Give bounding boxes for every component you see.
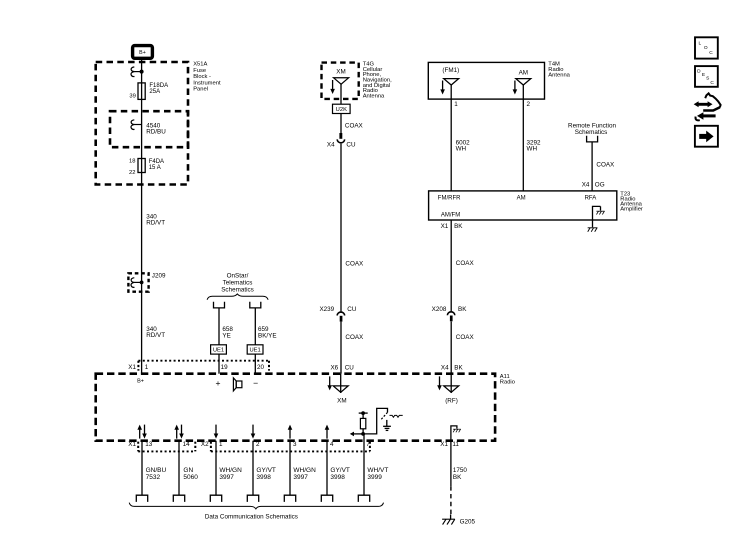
svg-text:(RF): (RF) [445,397,458,404]
svg-text:X208: X208 [432,306,447,313]
splice U2K [333,104,351,113]
arrow down pin 14 [179,425,184,439]
svg-text:COAX: COAX [345,260,364,267]
label T4M Radio Antenna [548,61,570,78]
off-page connector pin 7 [358,495,369,502]
wire pin 4 [326,441,328,496]
svg-text:7: 7 [366,441,370,448]
svg-text:Block -: Block - [193,74,211,80]
switch blade dashed [381,412,388,419]
svg-text:COAX: COAX [345,123,364,130]
arrow down XM inside radio [327,376,332,390]
svg-text:BK/YE: BK/YE [258,333,277,340]
chassis ground below T23 [588,228,598,232]
svg-text:CU: CU [346,141,356,148]
svg-text:25A: 25A [149,89,160,95]
svg-text:7532: 7532 [146,474,161,481]
svg-text:RD/BU: RD/BU [146,129,166,136]
wire T23 to radio X4 RF [450,220,452,311]
svg-text:Instrument: Instrument [193,80,221,86]
harness connector dashed box 4540 [110,111,188,147]
wire label 340 RD/VT lower [146,326,165,339]
off-page connector to OnStar pin 20 [250,302,261,308]
svg-text:Panel: Panel [193,87,208,93]
svg-text:BK: BK [454,364,463,371]
svg-text:D: D [697,69,701,75]
label X51A Fuse Block - Instrument Panel [193,62,221,93]
splice UE1 right [247,345,263,354]
wire label WH/VT 3999 [367,467,388,481]
svg-text:19: 19 [221,364,229,371]
antenna symbol FM1 [444,79,459,85]
wire AM to T23 pin AM [522,85,524,191]
wire 659 BK/YE [254,308,256,345]
svg-text:Antenna: Antenna [363,93,385,99]
off-page connector pin 3 [284,495,295,502]
wire label GN/BU 7532 [146,467,167,481]
splice UE1 left [211,345,227,354]
ground G205 [442,514,475,525]
svg-text:L: L [698,41,701,47]
icon box DESC [695,66,718,87]
svg-text:X239: X239 [319,306,334,313]
arrow down in T4G [330,80,335,94]
label Remote Function Schematics [568,122,616,136]
pin label X6 CU [330,365,354,372]
antenna symbol RF radio [444,386,459,392]
icon box LOC [695,37,718,58]
pin label X4 OG [582,181,605,188]
connector hook at fuse block feed [131,67,144,77]
arrow up pin 13 [137,425,142,439]
svg-text:Data Communication Schematics: Data Communication Schematics [205,514,298,521]
label T4G Cellular Phone Navigation and Digital Radio Antenna [363,62,392,100]
brace Data Communication [129,503,383,509]
svg-text:Antenna: Antenna [548,72,570,78]
wire pin 3 [289,441,291,496]
in-line connector J209 [128,272,166,291]
antenna symbol XM radio [333,386,348,392]
icon box arrow right [695,126,718,147]
wire label WH/GN 3997 [219,467,242,481]
svg-text:AM: AM [517,195,526,201]
wire label 659 BK/YE [258,326,277,339]
svg-text:X4: X4 [441,364,449,371]
speaker icon [233,378,242,391]
svg-text:22: 22 [129,170,135,176]
off-page connector pin 14 [173,495,184,502]
wire label 1750 BK [453,467,468,481]
arrow down RF inside radio [437,376,442,390]
pin labels X1 11 [440,441,459,448]
svg-text:X51A: X51A [193,62,207,68]
antenna symbol XM T4G [334,78,349,84]
connector dotted line X1 bottom [138,442,195,452]
svg-text:3997: 3997 [293,474,308,481]
wire X4 to X239 coax [340,144,342,312]
label T23 Radio Antenna Amplifier [620,192,643,213]
connector X208 BK [432,306,468,321]
svg-text:WH: WH [527,146,538,153]
pin labels X2 1 [201,441,223,448]
connector X239 CU [319,306,356,322]
wire stub to XM antenna [340,374,342,393]
svg-text:1: 1 [145,364,149,371]
antenna symbol AM [516,79,531,85]
wire pin 14 [178,441,180,496]
wire UE1 to radio pin 19 [218,354,220,374]
svg-text:OnStar/: OnStar/ [227,273,249,280]
off-page connector pin 2 [247,495,258,502]
arrow down FM1 [440,81,445,95]
svg-text:14: 14 [183,441,191,448]
off-page connector to OnStar pin 19 [214,302,225,308]
arrow up pin 14 [174,425,179,439]
off-page connector pin 4 [321,495,332,502]
fuse F4DA 15 A [129,158,164,176]
svg-text:15 A: 15 A [149,165,161,171]
svg-text:BK: BK [454,223,463,230]
svg-text:Amplifier: Amplifier [620,207,643,213]
off-page connector remote function [587,136,598,142]
connector hook on wire 4540 [131,120,142,130]
radio antenna T4M box [428,62,544,99]
svg-text:X4: X4 [582,181,590,188]
svg-text:Schematics: Schematics [575,129,608,136]
earth ground at switch [383,420,391,431]
wire U2K to X4 [340,114,342,134]
svg-text:4: 4 [330,441,334,448]
connector X1 dotted line radio top [138,361,269,371]
wire pin 11 solid [450,441,452,487]
svg-text:C: C [710,80,714,86]
pin label X1 BK of T23 [441,223,464,230]
connector X4 CU male/female [327,133,356,148]
wire label GN 5060 [183,467,198,481]
arrow left at pin 7 [350,432,363,437]
wire label WH/GN 3997 second [293,467,316,481]
switch squiggle [390,415,403,417]
svg-text:U2K: U2K [336,107,347,113]
svg-text:XM: XM [336,69,345,76]
svg-text:RD/VT: RD/VT [146,220,165,227]
wire label 6002 WH [456,139,471,152]
icon flip arrows [694,93,721,120]
wire pin 13 [141,441,143,496]
arrow down AM [513,81,518,95]
svg-text:39: 39 [129,93,135,99]
svg-text:18: 18 [129,158,135,164]
wire label GY/VT 3998 [256,467,276,481]
svg-text:11: 11 [452,441,459,448]
svg-text:X1: X1 [441,223,449,230]
wire label 340 RD/VT upper [146,213,165,226]
wire remote to T23 RFA [591,142,593,191]
wire label GY/VT 3998 second [330,467,350,481]
internal ground path at pin 11 [451,426,461,441]
pin label X4 BK radio [441,364,464,371]
arrow down pin 2 [251,425,256,439]
pin labels bottom X1 13 [128,441,152,448]
fuse block X51A dashed outline [96,62,188,185]
svg-text:E: E [702,72,705,78]
svg-text:CU: CU [345,365,355,372]
svg-text:OG: OG [595,181,605,188]
svg-text:BK: BK [458,306,467,313]
svg-text:3997: 3997 [219,474,234,481]
off-page connector pin 13 [136,495,147,502]
wire B+ to fuse F18DA [141,60,143,374]
svg-text:(FM1): (FM1) [442,67,459,74]
svg-text:−: − [253,378,258,388]
wire label 658 YE [222,326,233,339]
svg-text:AM/FM: AM/FM [441,212,460,218]
svg-text:3998: 3998 [256,474,271,481]
arrow down pin 1 [214,425,219,439]
wire UE1 to radio pin 20 [254,354,256,374]
svg-text:Radio: Radio [500,380,515,386]
wire pin 2 [252,441,254,496]
svg-text:3999: 3999 [367,474,382,481]
wire X239 to radio X6 [340,322,342,374]
svg-text:O: O [704,45,708,51]
junction node pin 7 [361,432,365,436]
svg-text:XM: XM [337,397,346,404]
connector dotted line X2 bottom [211,442,370,452]
svg-text:3998: 3998 [330,474,345,481]
svg-text:B+: B+ [139,50,146,56]
svg-text:1: 1 [219,441,223,448]
svg-text:20: 20 [257,364,265,371]
svg-text:Schematics: Schematics [221,286,254,293]
svg-text:3: 3 [293,441,297,448]
wire pin 7 [363,434,365,495]
wire FM1 to T23 pin FM/RFR [450,85,452,191]
svg-text:X4: X4 [327,141,335,148]
svg-text:X1: X1 [128,441,136,448]
svg-text:1: 1 [454,101,458,108]
wire label 3292 WH [527,139,542,152]
svg-text:WH: WH [456,146,467,153]
wire XM antenna to U2K [340,84,342,104]
svg-text:C: C [709,50,713,56]
svg-text:UE1: UE1 [249,348,260,354]
label A11 Radio [500,374,515,386]
internal ground path T23 [593,206,605,227]
svg-text:BK: BK [453,474,462,481]
amplifier T23 box [429,191,617,220]
svg-text:COAX: COAX [596,161,615,168]
radio A11 dashed box [96,374,495,441]
svg-text:UE1: UE1 [213,348,224,354]
wire label 4540 RD/BU [146,122,166,135]
battery feed B+ terminal [133,46,153,59]
svg-text:CU: CU [347,306,357,313]
svg-text:Fuse: Fuse [193,68,206,74]
fuse F18DA 25A [129,83,168,100]
svg-text:X2: X2 [201,441,209,448]
svg-text:COAX: COAX [456,334,475,341]
off-page connector pin X2-1 [210,495,221,502]
svg-text:X6: X6 [330,365,338,372]
svg-text:YE: YE [222,333,230,340]
svg-text:2: 2 [527,101,531,108]
wire 658 YE [218,308,220,345]
brace OnStar [207,294,268,300]
arrow up pin 3 [288,425,293,439]
svg-text:2: 2 [256,441,260,448]
svg-text:5060: 5060 [183,474,198,481]
label OnStar/Telematics Schematics [221,273,254,294]
svg-text:G205: G205 [460,519,476,526]
wire junction to switch [363,408,387,434]
svg-text:J209: J209 [152,272,166,279]
svg-text:RD/VT: RD/VT [146,332,165,339]
wire pin X2-1 [215,441,217,496]
svg-text:FM/RFR: FM/RFR [438,195,461,201]
arrow up pin 4 [325,425,330,439]
svg-text:X1: X1 [440,441,448,448]
svg-text:X1: X1 [128,364,136,371]
antenna terminal T-bar with junction [359,411,368,415]
wire stub to RF antenna [450,374,452,393]
arrow down pin 13 [142,425,147,439]
svg-text:S: S [706,76,709,82]
svg-text:RFA: RFA [585,195,597,201]
antenna T4G dashed box [322,63,359,99]
svg-text:B+: B+ [137,378,144,384]
svg-text:+: + [215,378,220,388]
svg-text:COAX: COAX [345,334,364,341]
pin labels radio top X1 1 [128,364,149,371]
svg-text:13: 13 [145,441,153,448]
svg-text:AM: AM [519,69,528,76]
svg-text:COAX: COAX [456,260,475,267]
resistor inside radio [360,413,365,434]
wire pin 11 dashed [450,486,452,517]
